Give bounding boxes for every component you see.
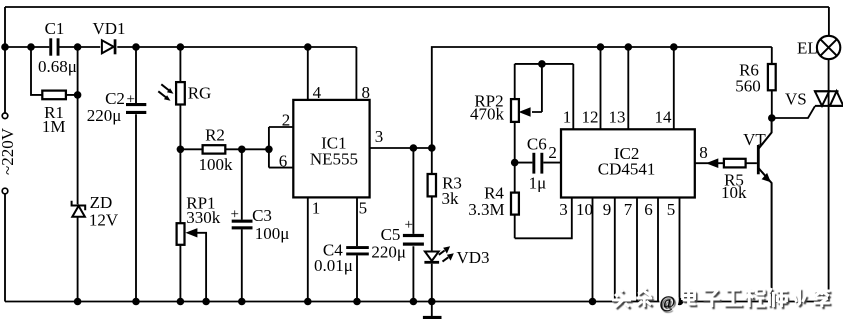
svg-text:10: 10 [576,200,593,219]
svg-text:0.68μ: 0.68μ [38,57,77,76]
resistor R5 [721,159,757,202]
node AC terminal upper [2,113,8,119]
svg-text:+: + [405,217,413,233]
pin 8 IC1 [356,47,370,102]
svg-text:C1: C1 [45,19,65,38]
LED VD3 [424,246,489,301]
wire bottom rail [5,301,829,303]
op-amp U2: IC2 CD4541 box [561,129,695,197]
junction dots bottom rail [74,298,776,306]
op-amp U1: IC1 NE555 box [293,100,369,197]
resistor R3 [428,148,462,252]
svg-text:220μ: 220μ [371,243,406,262]
svg-text:12V: 12V [89,210,119,229]
lamp EL [797,7,840,59]
pin 1 IC1 [308,197,320,301]
pin 1 IC2 [563,64,574,129]
svg-text:3k: 3k [442,189,460,208]
node AC terminal lower [2,188,8,194]
svg-text:VD1: VD1 [92,19,125,38]
svg-text:220μ: 220μ [87,106,122,125]
wire left border upper [4,7,6,113]
svg-text:R2: R2 [205,126,225,145]
ground [423,302,442,319]
capacitor C4 [314,241,369,276]
svg-text:C6: C6 [527,134,547,153]
svg-text:4: 4 [313,83,322,102]
pin 13 IC2 [609,47,629,129]
pin 9 IC2 [603,198,615,302]
pin 6 IC1 [269,152,293,171]
pin 3 IC1 output wire [370,127,436,152]
pin 4 IC1 [308,47,322,102]
resistor R6 [735,47,775,122]
capacitor C3 [231,149,290,301]
svg-text:3: 3 [375,127,384,146]
wire triac gate [772,106,815,118]
label ~220V [0,127,17,175]
svg-text:8: 8 [361,83,370,102]
svg-text:6: 6 [644,200,653,219]
zener diode ZD [72,47,119,302]
wire pin2-pin6 link [268,127,270,168]
svg-text:6: 6 [279,152,288,171]
potentiometer RP1 [177,149,221,301]
pin 8 IC2 wire with arrow [695,143,724,168]
svg-text:560: 560 [735,77,761,96]
pin 2 IC1 [269,111,293,130]
resistor R1 [31,47,81,136]
svg-text:7: 7 [624,200,633,219]
wire left border lower [4,194,6,302]
svg-text:C3: C3 [252,206,272,225]
svg-text:+: + [231,207,239,223]
svg-text:RG: RG [188,84,212,103]
transistor Q1: VT [743,118,771,302]
svg-text:0.01μ: 0.01μ [314,256,353,275]
wire top border [5,6,829,8]
svg-text:CD4541: CD4541 [598,160,656,179]
svg-text:1: 1 [563,108,572,127]
wire top rail left (y=47) [5,46,356,48]
svg-text:VS: VS [785,90,807,109]
svg-text:1: 1 [312,199,321,218]
capacitor C6 [511,134,561,192]
capacitor C1 [38,19,77,76]
wire IC1 top rail to right rail [432,47,772,148]
pin 7 IC2 [624,198,637,302]
svg-text:VD3: VD3 [456,248,489,267]
resistor R4 [468,163,519,239]
svg-text:EL: EL [797,39,818,58]
svg-text:3.3M: 3.3M [468,200,504,219]
svg-text:3: 3 [559,200,568,219]
pin 2 IC2 [548,143,557,162]
svg-text:@: @ [660,293,676,312]
pin 12 IC2 [582,47,601,129]
pin 10 IC2 [576,198,593,302]
svg-text:5: 5 [667,200,676,219]
svg-text:VT: VT [743,130,766,149]
junction dots top rail left [1,43,311,51]
svg-text:~220V: ~220V [0,127,17,175]
svg-text:14: 14 [655,108,673,127]
svg-text:12: 12 [582,108,599,127]
svg-text:ZD: ZD [90,193,113,212]
svg-text:1μ: 1μ [529,174,547,193]
svg-text:330k: 330k [186,208,221,227]
svg-text:9: 9 [603,200,612,219]
pin 14 IC2 [655,47,674,129]
svg-text:100k: 100k [199,155,234,174]
svg-text:C5: C5 [381,225,401,244]
capacitor C5 [371,148,424,302]
svg-text:8: 8 [699,143,708,162]
svg-text:1M: 1M [42,117,66,136]
svg-text:470k: 470k [470,105,505,124]
svg-text:5: 5 [359,199,368,218]
resistor R2 [177,126,273,174]
svg-text:2: 2 [548,143,557,162]
junction dots right rail [597,43,678,51]
svg-text:10k: 10k [721,183,747,202]
svg-text:+: + [127,92,135,108]
svg-text:NE555: NE555 [310,149,358,168]
wire oscillator rail y=63.9 [515,60,574,68]
pin 3 IC2 wire from R4 [515,198,572,239]
svg-text:13: 13 [609,108,626,127]
svg-text:2: 2 [282,111,291,130]
svg-text:100μ: 100μ [255,224,290,243]
capacitor C2 [87,47,147,302]
pin 6 IC2 [644,198,658,302]
potentiometer RP2 [470,64,542,163]
pin 5 IC1 [357,197,367,301]
diode VD1 [92,19,125,54]
pin 5 IC2 [667,198,680,302]
triac VS [785,59,843,301]
photoresistor RG [158,47,211,149]
